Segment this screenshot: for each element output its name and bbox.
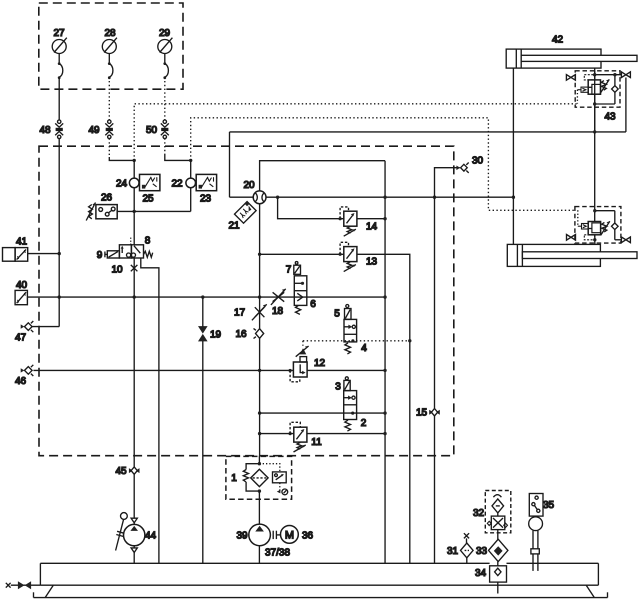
wire 44 column segments xyxy=(133,474,135,518)
test point X left lower xyxy=(567,235,576,241)
svg-text:8: 8 xyxy=(145,236,151,247)
wire cyl lower left port xyxy=(512,197,514,244)
clogging indicator xyxy=(259,464,287,495)
coupling 45 xyxy=(115,466,139,477)
filter 1 xyxy=(231,469,268,486)
supply riser x=259.6 xyxy=(259,204,261,329)
sensor 40 xyxy=(15,280,27,305)
svg-text:15: 15 xyxy=(416,408,428,419)
svg-text:21: 21 xyxy=(228,221,240,232)
valve 6 7 solenoid xyxy=(286,262,301,276)
circle 22 xyxy=(171,160,195,189)
coupling 50 xyxy=(146,120,169,139)
valve 3 solenoid xyxy=(335,377,350,393)
svg-text:24: 24 xyxy=(116,179,128,190)
node junction 25-line xyxy=(133,159,136,162)
wire valve 13 feed xyxy=(260,253,344,255)
wire 26 output xyxy=(117,210,191,212)
coupling 30 xyxy=(456,156,483,173)
svg-text:7: 7 xyxy=(286,265,292,276)
svg-text:28: 28 xyxy=(104,28,116,39)
gauge 29 xyxy=(158,28,173,79)
svg-text:5: 5 xyxy=(334,309,340,320)
valve 5 solenoid xyxy=(334,305,351,320)
pilot wire dotted y340 xyxy=(303,340,410,342)
circle 24 xyxy=(116,160,139,189)
valve 23 xyxy=(196,174,216,204)
svg-text:46: 46 xyxy=(15,376,27,387)
svg-text:37/38: 37/38 xyxy=(265,548,290,559)
svg-text:43: 43 xyxy=(604,112,616,123)
valve 43 check diamond xyxy=(612,86,619,93)
shaft coupling xyxy=(273,531,280,539)
node rod line x43 xyxy=(593,130,596,133)
lower valve spring xyxy=(601,221,610,235)
node supply y254 xyxy=(258,253,261,256)
svg-text:11: 11 xyxy=(311,437,322,448)
breather 31 xyxy=(447,533,473,563)
svg-text:23: 23 xyxy=(200,194,212,205)
coupling 15 xyxy=(416,408,440,419)
svg-text:30: 30 xyxy=(472,156,484,167)
suction strainer 34 xyxy=(475,562,507,594)
node riser y218 xyxy=(383,217,386,220)
wire 47 xyxy=(32,326,59,328)
wire y413 xyxy=(260,412,385,414)
wire 49 to junction row xyxy=(108,138,110,157)
svg-text:40: 40 xyxy=(16,280,28,291)
node 40-line x hand pump column xyxy=(133,295,136,298)
svg-text:42: 42 xyxy=(552,35,564,46)
node supply y413 xyxy=(258,411,261,414)
coupling 47 xyxy=(15,321,33,344)
svg-text:32: 32 xyxy=(473,508,485,519)
valve 43 main cartridge xyxy=(588,80,600,94)
node 40-line x27col xyxy=(58,295,61,298)
lower valve main cartridge xyxy=(588,222,600,235)
svg-text:M: M xyxy=(285,530,294,542)
svg-text:47: 47 xyxy=(15,333,27,344)
wire cyl42 right port xyxy=(594,68,596,132)
wire 46-line xyxy=(33,369,293,371)
hand pump 44 xyxy=(116,513,157,553)
wire filter to pump xyxy=(258,456,260,464)
wire y433 xyxy=(260,433,294,435)
valve 2 body xyxy=(344,391,367,432)
lower counterbalance valve dashed box xyxy=(575,207,621,244)
wire valve 14 feed xyxy=(278,197,344,219)
wire hand pump column xyxy=(133,258,135,467)
filter 1 dashed box xyxy=(226,456,292,499)
wire valve 12 out xyxy=(307,369,385,371)
level gauge 35 xyxy=(529,494,555,571)
svg-text:9: 9 xyxy=(97,250,103,261)
node riser x197 xyxy=(383,196,386,199)
node cyl port x197 xyxy=(512,196,515,199)
pilot dotted valve 8 top xyxy=(130,238,132,245)
svg-text:29: 29 xyxy=(159,28,171,39)
wire 40-line main xyxy=(27,296,385,298)
svg-text:31: 31 xyxy=(447,546,459,557)
valve 12 body xyxy=(289,358,326,382)
coupling 16 xyxy=(235,329,263,341)
coupling 46 xyxy=(15,365,33,387)
wire valve 14 out xyxy=(357,218,385,220)
test point X right lower xyxy=(621,237,630,243)
wire 23-line down xyxy=(190,188,192,212)
node 40-line x riser xyxy=(383,295,386,298)
valve 11 xyxy=(289,422,323,452)
svg-text:33: 33 xyxy=(476,546,488,557)
filter 1 bypass loop xyxy=(243,464,259,491)
svg-text:10: 10 xyxy=(111,265,123,276)
node pilot x409 xyxy=(408,339,411,342)
gauge panel dashed box xyxy=(39,3,183,89)
wire 50 to junction row xyxy=(164,138,166,154)
lower valve internal wires xyxy=(584,209,621,244)
throttle 18 xyxy=(271,289,286,317)
node junction 26-line xyxy=(133,210,136,213)
valve 12 pilot xyxy=(296,346,309,362)
throttle 17 xyxy=(234,304,267,320)
component 21 rotated xyxy=(228,202,256,232)
svg-text:6: 6 xyxy=(310,299,316,310)
strainer 33 xyxy=(476,530,508,562)
lower valve check diamond xyxy=(612,223,619,230)
pilot wire dotted to lower valve 43 xyxy=(191,118,575,211)
svg-text:35: 35 xyxy=(543,500,555,511)
svg-text:48: 48 xyxy=(39,125,51,136)
circle 20 xyxy=(243,180,266,204)
cylinder 42 xyxy=(506,35,637,69)
pump 39 xyxy=(236,524,270,546)
node supply y433 xyxy=(258,432,261,435)
gauge 28 xyxy=(102,28,117,79)
inner header wire xyxy=(260,161,385,191)
wire gauge29 dotted drop xyxy=(164,77,166,120)
wire pump to tank xyxy=(258,546,260,564)
svg-text:25: 25 xyxy=(142,194,154,205)
sensor 41 xyxy=(3,237,28,262)
svg-text:50: 50 xyxy=(146,125,158,136)
svg-text:36: 36 xyxy=(302,531,314,542)
pressure switch 26 xyxy=(86,193,117,221)
main riser x=385 xyxy=(384,161,386,564)
svg-text:18: 18 xyxy=(272,306,284,317)
test point X right of 43 xyxy=(621,72,630,132)
svg-text:4: 4 xyxy=(361,343,367,354)
svg-text:19: 19 xyxy=(210,330,222,341)
wire 27 column lower xyxy=(58,138,60,326)
node supply y297 xyxy=(258,295,261,298)
gauge 27 xyxy=(52,28,67,79)
node filter bottom xyxy=(258,489,261,492)
node riser y433 xyxy=(383,432,386,435)
valve 14 xyxy=(339,207,378,236)
test point X left of 43 xyxy=(566,75,575,81)
wire gauge27 down xyxy=(58,77,60,120)
wire 41 out xyxy=(28,253,60,255)
wire return x=434.5 xyxy=(434,197,436,408)
main dashed enclosure xyxy=(39,146,454,456)
valve 25 xyxy=(140,174,160,204)
wire valve 13 out xyxy=(357,254,410,563)
filler breather 32 xyxy=(473,491,511,533)
spring valve 8 xyxy=(144,251,153,257)
valve 4 body xyxy=(344,319,367,354)
node 40-line x19 xyxy=(201,295,204,298)
valve 13 xyxy=(339,242,378,271)
svg-text:26: 26 xyxy=(101,193,113,204)
coupling 48 xyxy=(39,120,63,139)
node junction 23-line xyxy=(189,159,192,162)
pilot wire dotted to valve 43 xyxy=(134,104,576,161)
wire circle24 down to valve 8 xyxy=(133,188,135,245)
svg-text:49: 49 xyxy=(88,125,100,136)
svg-text:44: 44 xyxy=(145,531,157,542)
wire gauge28 dotted drop xyxy=(108,77,110,120)
motor 36 xyxy=(265,526,314,559)
cylinder lower xyxy=(507,244,637,266)
node riser y413 xyxy=(383,411,386,414)
svg-text:22: 22 xyxy=(171,179,183,190)
coupling 49 xyxy=(88,120,113,139)
node 14 feed xyxy=(276,196,279,199)
valve 8 body xyxy=(119,236,150,259)
svg-text:16: 16 xyxy=(235,329,247,340)
valve 43 internal wires xyxy=(584,71,621,132)
svg-text:41: 41 xyxy=(16,237,28,248)
svg-text:14: 14 xyxy=(366,222,378,233)
svg-text:3: 3 xyxy=(335,382,341,393)
wire valve 8 drain elbow xyxy=(141,258,159,563)
node 27col 41 xyxy=(58,252,61,255)
svg-text:39: 39 xyxy=(236,531,248,542)
wire 43 to lower block xyxy=(594,132,596,222)
pilot actuator 9 xyxy=(97,250,120,261)
svg-text:13: 13 xyxy=(366,257,378,268)
svg-text:12: 12 xyxy=(314,358,326,369)
counterbalance valve 43 dashed box xyxy=(575,71,620,107)
wire cyl42 left port xyxy=(512,68,514,197)
supply header left vertical xyxy=(229,132,231,197)
wire 19 column xyxy=(202,297,204,326)
node return x197 xyxy=(433,196,436,199)
svg-text:27: 27 xyxy=(53,28,65,39)
vent 10 xyxy=(111,265,137,276)
svg-text:34: 34 xyxy=(475,568,487,579)
svg-text:17: 17 xyxy=(234,308,246,319)
node supply y370 xyxy=(258,369,261,372)
wire 30 branch xyxy=(435,168,460,198)
valve 43 spring xyxy=(600,79,609,93)
svg-text:2: 2 xyxy=(361,418,367,429)
valve 43 pilot box xyxy=(577,87,588,104)
tank xyxy=(34,563,608,597)
svg-text:45: 45 xyxy=(115,466,127,477)
svg-text:1: 1 xyxy=(231,473,237,484)
supply header top wire xyxy=(230,131,626,133)
node filter top xyxy=(258,462,261,465)
valve 19 xyxy=(198,326,221,341)
valve 6 body xyxy=(294,276,316,315)
drain shutoff valve xyxy=(6,581,41,589)
lower valve pilot box xyxy=(578,210,588,229)
node riser y370 xyxy=(383,369,386,372)
svg-text:20: 20 xyxy=(243,180,255,191)
wire cylinder line y=197 xyxy=(230,196,254,198)
